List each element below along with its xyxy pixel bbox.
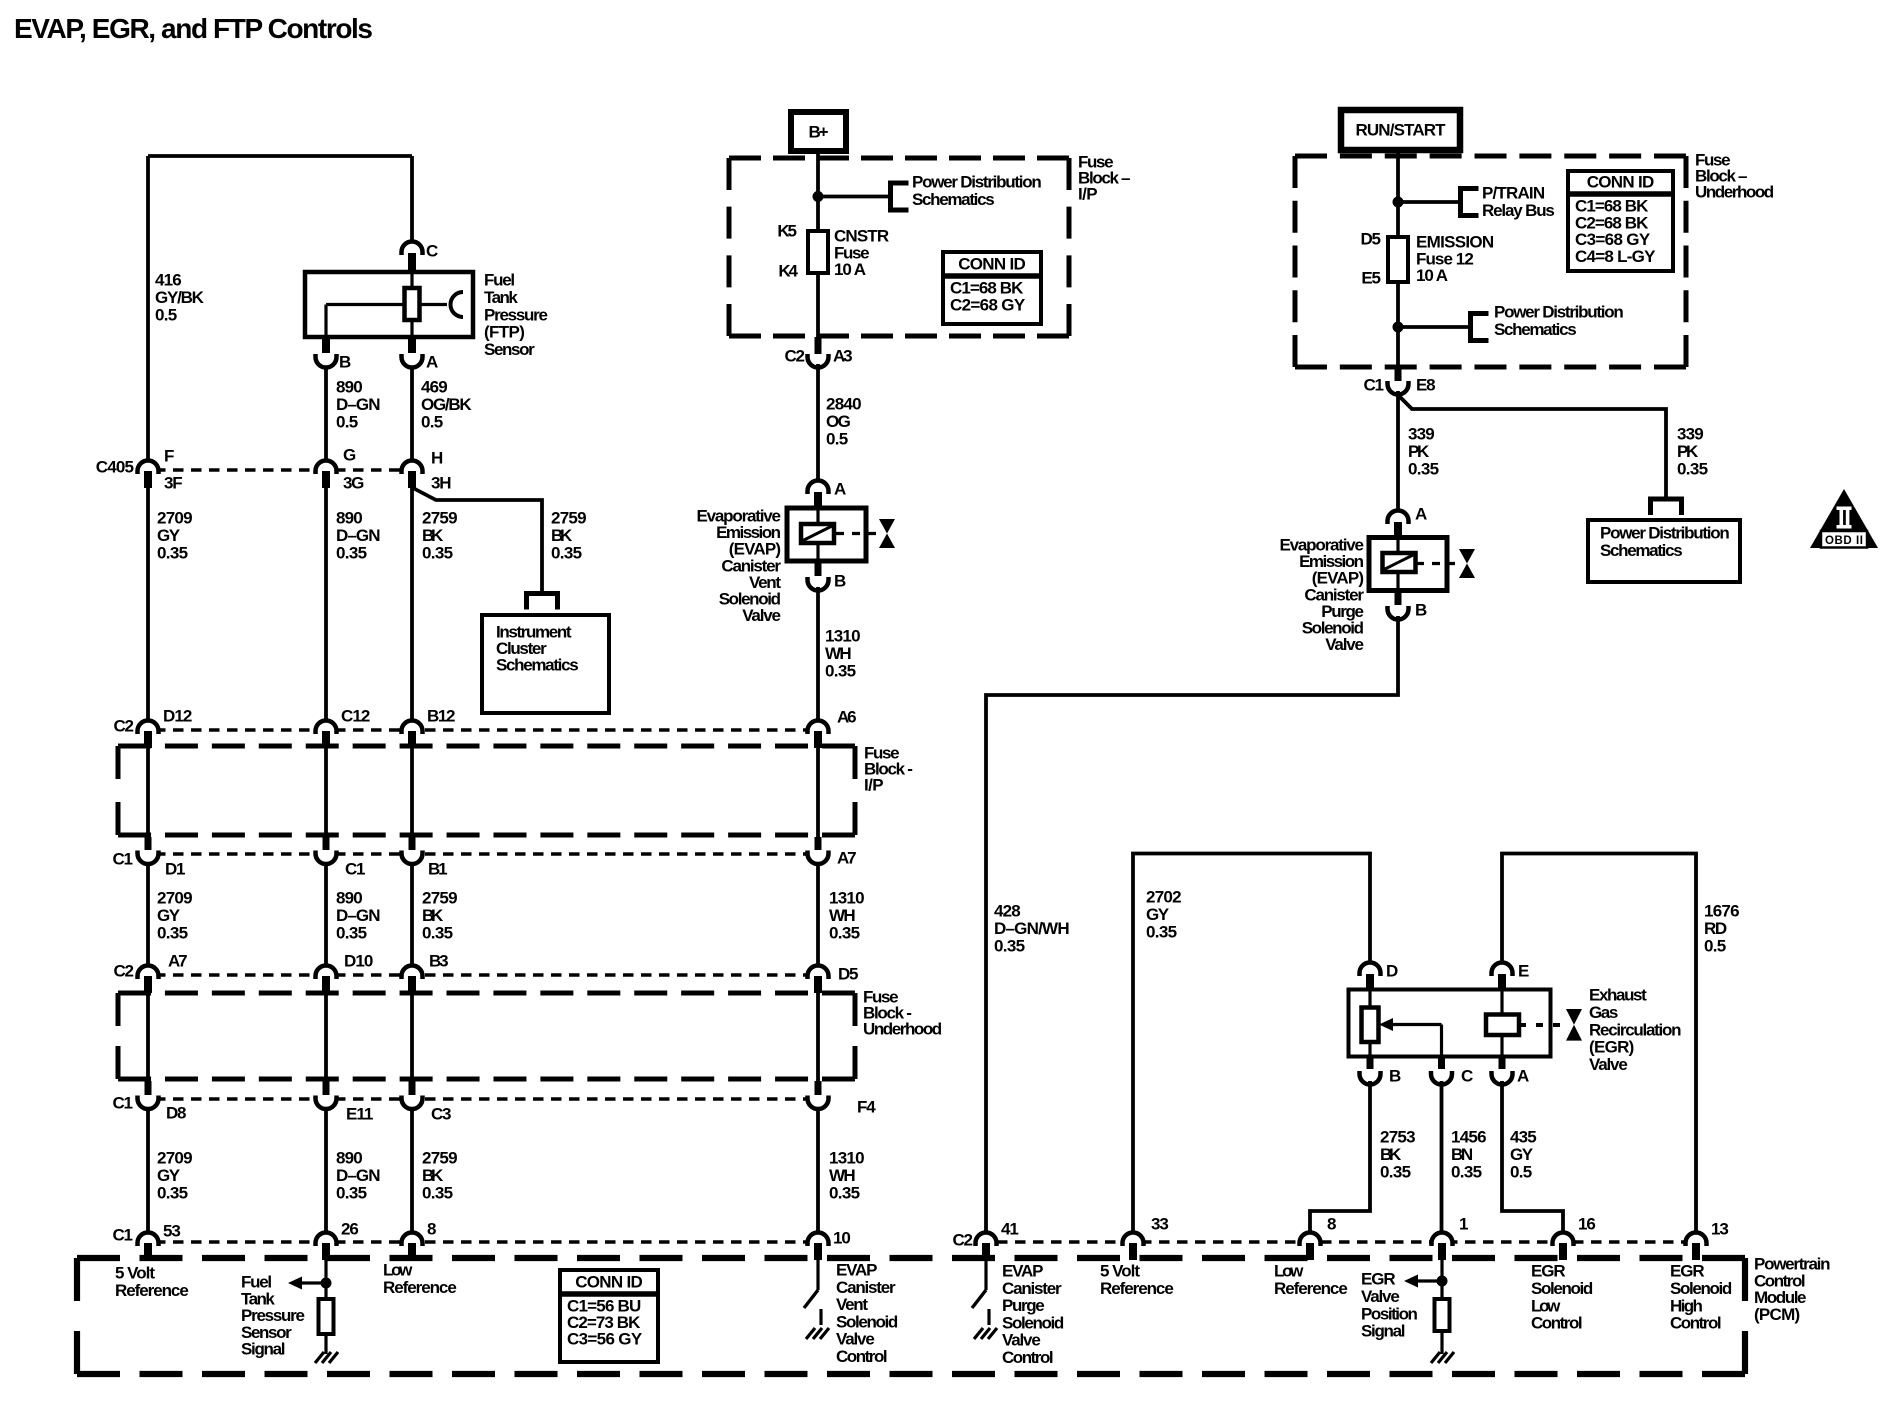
svg-text:1310: 1310 — [829, 889, 865, 908]
svg-text:Exhaust: Exhaust — [1589, 986, 1647, 1005]
powertrain control module PCM box — [77, 1255, 1745, 1261]
svg-text:2709: 2709 — [157, 509, 193, 528]
connector C2 pin D12 — [138, 721, 159, 735]
svg-text:F: F — [164, 447, 174, 466]
EVAP canister vent solenoid valve box — [787, 508, 866, 561]
tap bracket power distribution (I/P) — [891, 183, 909, 210]
EVAP canister purge solenoid valve box — [1369, 538, 1447, 591]
fuel tank pressure FTP sensor box — [305, 272, 473, 337]
svg-text:Purge: Purge — [1002, 1296, 1045, 1315]
svg-text:BK: BK — [422, 1166, 444, 1185]
svg-text:Signal: Signal — [1361, 1322, 1406, 1341]
svg-text:0.5: 0.5 — [826, 429, 848, 448]
svg-text:Valve: Valve — [1002, 1331, 1041, 1350]
svg-text:BK: BK — [422, 526, 444, 545]
svg-text:0.35: 0.35 — [829, 923, 860, 942]
svg-text:890: 890 — [336, 889, 363, 908]
EGR valve dashed link — [1519, 1023, 1560, 1027]
svg-text:F4: F4 — [857, 1098, 876, 1117]
EGR solenoid coil — [1486, 1015, 1519, 1036]
svg-text:1310: 1310 — [829, 1149, 865, 1168]
svg-text:8: 8 — [1327, 1215, 1336, 1234]
svg-text:WH: WH — [825, 644, 852, 663]
svg-text:Canister: Canister — [836, 1278, 896, 1297]
svg-text:2709: 2709 — [157, 1149, 193, 1168]
svg-text:EVAP: EVAP — [1002, 1262, 1044, 1281]
svg-text:B3: B3 — [429, 952, 449, 971]
connector row C2/D12 — [137, 728, 830, 732]
svg-text:Solenoid: Solenoid — [1670, 1279, 1732, 1298]
svg-text:26: 26 — [341, 1220, 359, 1239]
svg-text:Gas: Gas — [1589, 1003, 1618, 1022]
svg-text:Power Distribution: Power Distribution — [1600, 524, 1730, 543]
svg-text:1456: 1456 — [1451, 1128, 1487, 1147]
svg-text:A: A — [1517, 1067, 1529, 1086]
CNSTR fuse 10A — [808, 231, 828, 273]
PCM connector C1 pin 8 — [402, 1233, 423, 1247]
svg-text:D: D — [1386, 962, 1398, 981]
connector A (vent valve) — [808, 481, 829, 495]
svg-text:D8: D8 — [166, 1104, 187, 1123]
pin C (EGR) — [1438, 1056, 1445, 1069]
svg-text:OG/BK: OG/BK — [421, 395, 472, 414]
svg-text:0.5: 0.5 — [421, 412, 443, 431]
svg-text:0.35: 0.35 — [422, 923, 453, 942]
vent valve dashed link — [836, 532, 876, 535]
svg-text:High: High — [1670, 1296, 1703, 1315]
wire 2753 BK — [1310, 1081, 1370, 1231]
svg-text:0.35: 0.35 — [825, 661, 856, 680]
wire 2759 BK / 469 OG-BK (x=412) — [410, 156, 414, 240]
svg-text:41: 41 — [1001, 1220, 1019, 1239]
svg-text:Solenoid: Solenoid — [836, 1312, 898, 1331]
svg-text:0.35: 0.35 — [1380, 1162, 1411, 1181]
svg-text:A6: A6 — [837, 708, 857, 727]
connector C2 pin A6 — [808, 721, 829, 735]
ground (vent driver) — [819, 1309, 822, 1325]
svg-text:1676: 1676 — [1704, 902, 1740, 921]
svg-text:Solenoid: Solenoid — [1002, 1313, 1064, 1332]
svg-text:Valve: Valve — [1361, 1287, 1400, 1306]
connector C1 pin D8 — [145, 1081, 152, 1095]
svg-text:Solenoid: Solenoid — [1531, 1279, 1593, 1298]
tap bracket to power distribution schematics box — [1651, 499, 1682, 515]
connector C1 pin C3 — [409, 1081, 416, 1095]
svg-text:Reference: Reference — [1100, 1279, 1174, 1298]
svg-text:3H: 3H — [431, 474, 452, 493]
power distribution schematics box — [1588, 520, 1740, 582]
svg-text:0.5: 0.5 — [336, 412, 358, 431]
svg-text:890: 890 — [336, 1149, 363, 1168]
svg-text:Vent: Vent — [836, 1295, 868, 1314]
svg-text:C1: C1 — [113, 1094, 134, 1113]
connector C2 A3 — [815, 337, 822, 354]
svg-text:Power Distribution: Power Distribution — [1494, 303, 1624, 322]
connector C (FTP sensor) — [402, 242, 423, 256]
wire to P/TRAIN relay bus tap — [1398, 200, 1460, 204]
svg-text:0.35: 0.35 — [994, 936, 1025, 955]
tap bracket to instrument cluster — [527, 594, 558, 610]
connector E (EGR valve) — [1492, 963, 1513, 976]
PCM connector C1 pin 26 — [316, 1233, 337, 1247]
svg-text:G: G — [343, 446, 356, 465]
svg-text:13: 13 — [1711, 1220, 1729, 1239]
svg-text:CONN ID: CONN ID — [575, 1273, 643, 1292]
svg-text:0.35: 0.35 — [157, 1183, 188, 1202]
svg-text:C3: C3 — [431, 1105, 452, 1124]
svg-text:2709: 2709 — [157, 889, 193, 908]
wire 2709 GY (x=148) — [146, 156, 150, 459]
svg-text:C2: C2 — [114, 962, 135, 981]
svg-text:RD: RD — [1704, 919, 1727, 938]
svg-text:0.35: 0.35 — [1451, 1162, 1482, 1181]
svg-text:0.5: 0.5 — [1704, 936, 1726, 955]
connector D (EGR valve) — [1360, 963, 1381, 976]
EMISSION fuse 12 10A — [1388, 237, 1408, 282]
svg-text:0.35: 0.35 — [1146, 922, 1177, 941]
svg-text:C4=8 L-GY: C4=8 L-GY — [1575, 247, 1656, 266]
wire 339 PK left branch — [1396, 391, 1400, 509]
svg-text:10: 10 — [833, 1229, 851, 1248]
svg-text:339: 339 — [1408, 425, 1435, 444]
pin B (vent valve) — [815, 561, 822, 576]
svg-text:PK: PK — [1408, 442, 1430, 461]
pin A (FTP) — [408, 338, 416, 353]
svg-text:416: 416 — [155, 271, 182, 290]
fuse block I/P (middle) — [118, 744, 855, 749]
svg-text:B: B — [1415, 601, 1427, 620]
wire 2759 BK branch to instrument cluster — [413, 488, 542, 592]
FTP pressure crescent — [451, 292, 464, 317]
svg-text:469: 469 — [421, 378, 448, 397]
svg-text:Valve: Valve — [836, 1330, 875, 1349]
wire 890 D-GN (x=326) — [324, 368, 328, 459]
wire 435 GY — [1502, 1081, 1563, 1231]
wire to power distribution tap (underhood) — [1398, 325, 1470, 329]
svg-text:339: 339 — [1677, 425, 1704, 444]
svg-text:0.35: 0.35 — [551, 543, 582, 562]
svg-text:Canister: Canister — [1002, 1279, 1062, 1298]
svg-text:435: 435 — [1510, 1128, 1537, 1147]
CONN ID table (fuse block I/P) — [943, 252, 1041, 324]
svg-text:D–GN: D–GN — [336, 395, 381, 414]
PCM connector C2 pin 41 — [976, 1233, 997, 1247]
svg-text:Control: Control — [1002, 1348, 1054, 1367]
EGR valve position signal input (pin 1) — [1440, 1260, 1443, 1354]
svg-text:B: B — [834, 572, 846, 591]
svg-text:D–GN: D–GN — [336, 526, 381, 545]
svg-text:0.35: 0.35 — [1677, 459, 1708, 478]
wire 1310 WH — [816, 587, 820, 719]
svg-text:A7: A7 — [837, 849, 857, 868]
svg-text:D–GN: D–GN — [336, 906, 381, 925]
svg-text:Power Distribution: Power Distribution — [912, 173, 1042, 192]
connector C1 pin F4 — [815, 1081, 822, 1095]
svg-text:(FTP): (FTP) — [484, 323, 525, 342]
svg-text:Low: Low — [1531, 1296, 1561, 1315]
svg-text:Valve: Valve — [1325, 635, 1364, 654]
svg-text:1310: 1310 — [825, 627, 861, 646]
svg-text:GY: GY — [1510, 1145, 1534, 1164]
connector C405 pin G — [316, 461, 337, 475]
svg-text:D10: D10 — [344, 952, 373, 971]
svg-text:2759: 2759 — [422, 1149, 458, 1168]
svg-text:RUN/START: RUN/START — [1355, 121, 1446, 140]
svg-text:BK: BK — [1380, 1145, 1402, 1164]
svg-text:C2: C2 — [953, 1231, 974, 1250]
wire to power distribution tap — [818, 195, 890, 199]
pin B (purge valve) — [1395, 590, 1402, 605]
svg-text:53: 53 — [163, 1222, 181, 1241]
svg-text:Control: Control — [1670, 1314, 1722, 1333]
svg-text:(EGR): (EGR) — [1589, 1038, 1634, 1057]
svg-text:C12: C12 — [341, 707, 370, 726]
svg-text:D1: D1 — [165, 860, 186, 879]
svg-text:Valve: Valve — [742, 606, 781, 625]
svg-text:C1: C1 — [1364, 376, 1385, 395]
connector C405 pin F — [138, 461, 159, 475]
svg-text:Fuel: Fuel — [484, 271, 515, 290]
svg-text:Reference: Reference — [1274, 1279, 1348, 1298]
purge valve dashed link — [1416, 562, 1455, 565]
svg-text:0.5: 0.5 — [1510, 1162, 1532, 1181]
svg-text:Relay Bus: Relay Bus — [1482, 201, 1555, 220]
svg-text:2759: 2759 — [422, 889, 458, 908]
pin A (EGR) — [1499, 1056, 1506, 1069]
svg-text:A7: A7 — [168, 952, 188, 971]
svg-text:D5: D5 — [1361, 230, 1382, 249]
purge valve solenoid coil — [1383, 553, 1416, 572]
RUN/START box — [1341, 110, 1460, 150]
vent valve solenoid coil — [801, 524, 834, 543]
svg-text:Reference: Reference — [383, 1278, 457, 1297]
svg-text:(PCM): (PCM) — [1754, 1305, 1800, 1324]
svg-text:GY: GY — [157, 906, 181, 925]
connector C1 pin C1 — [323, 837, 330, 850]
EGR wiper arrow — [1390, 1023, 1442, 1026]
svg-text:Underhood: Underhood — [1695, 183, 1774, 202]
svg-text:Low: Low — [1274, 1262, 1304, 1281]
tap bracket power distribution (underhood) — [1471, 314, 1489, 341]
svg-text:EGR: EGR — [1531, 1262, 1566, 1281]
PCM connector C2 pin 1 — [1432, 1233, 1453, 1247]
wire 1676 RD (EGR E to pin 13) — [1502, 854, 1696, 1232]
junction node (P/TRAIN tap) — [1393, 197, 1404, 208]
svg-text:0.35: 0.35 — [422, 1183, 453, 1202]
svg-text:Underhood: Underhood — [863, 1020, 942, 1039]
svg-text:890: 890 — [336, 509, 363, 528]
svg-text:16: 16 — [1578, 1215, 1596, 1234]
FTP potentiometer wiper wire — [326, 303, 447, 306]
junction node (power distribution tap) — [1393, 322, 1404, 333]
svg-text:0.35: 0.35 — [336, 543, 367, 562]
svg-text:A: A — [426, 353, 438, 372]
svg-text:890: 890 — [336, 378, 363, 397]
svg-text:E5: E5 — [1361, 269, 1381, 288]
PCM connector C2 pin 13 — [1686, 1233, 1707, 1247]
connector C2 pin D10 — [316, 966, 337, 979]
svg-text:EVAP: EVAP — [836, 1261, 878, 1280]
svg-text:C2: C2 — [114, 717, 135, 736]
pin B (EGR) — [1367, 1056, 1374, 1069]
connector C2 pin B3 — [402, 966, 423, 979]
svg-text:A3: A3 — [833, 347, 853, 366]
svg-text:I/P: I/P — [1078, 185, 1098, 204]
svg-text:Pressure: Pressure — [484, 305, 548, 324]
FTP sensor signal input (pin 26) — [324, 1260, 327, 1354]
svg-text:H: H — [431, 449, 443, 468]
svg-text:10 A: 10 A — [834, 260, 866, 279]
svg-text:Valve: Valve — [1589, 1055, 1628, 1074]
svg-text:0.35: 0.35 — [336, 1183, 367, 1202]
ground (FTP signal pulldown) — [315, 1352, 338, 1363]
svg-text:Recirculation: Recirculation — [1589, 1020, 1682, 1039]
PCM connector C1 pin 10 — [808, 1233, 829, 1247]
svg-text:Position: Position — [1361, 1304, 1418, 1323]
connector C2 pin B12 — [402, 721, 423, 735]
svg-text:B: B — [339, 353, 351, 372]
svg-text:GY: GY — [157, 526, 181, 545]
connector C1 pin E11 — [323, 1081, 330, 1095]
PCM connector C2 pin 8 — [1300, 1233, 1321, 1247]
svg-text:EGR: EGR — [1361, 1270, 1396, 1289]
ground (EGR position pulldown) — [1431, 1352, 1454, 1363]
svg-text:WH: WH — [829, 906, 856, 925]
svg-text:C1: C1 — [113, 1226, 134, 1245]
svg-text:Schematics: Schematics — [1600, 541, 1683, 560]
svg-text:Schematics: Schematics — [1494, 320, 1577, 339]
svg-text:BN: BN — [1451, 1145, 1473, 1164]
svg-text:B1: B1 — [428, 860, 448, 879]
svg-text:0.5: 0.5 — [155, 305, 177, 324]
svg-text:CONN ID: CONN ID — [1587, 173, 1655, 192]
svg-text:Low: Low — [383, 1261, 413, 1280]
svg-text:GY: GY — [1146, 905, 1170, 924]
svg-text:E8: E8 — [1416, 376, 1436, 395]
svg-text:C1: C1 — [345, 860, 366, 879]
svg-text:D–GN: D–GN — [336, 1166, 381, 1185]
vent solenoid driver switch (pin 10) — [816, 1260, 819, 1290]
connector A (purge valve) — [1388, 511, 1409, 525]
svg-text:GY/BK: GY/BK — [155, 288, 205, 307]
svg-text:A: A — [834, 480, 846, 499]
svg-text:PK: PK — [1677, 442, 1699, 461]
PCM connector row C2 — [997, 1240, 1701, 1244]
svg-text:C: C — [1461, 1067, 1473, 1086]
wire 2840 OG — [816, 364, 820, 479]
svg-text:8: 8 — [427, 1220, 436, 1239]
connector C2 pin C12 — [316, 721, 337, 735]
svg-text:Control: Control — [1531, 1314, 1583, 1333]
connector C2 pin D5 — [808, 966, 829, 979]
ground (purge driver) — [987, 1309, 990, 1325]
FTP resistor element — [405, 288, 420, 320]
svg-text:428: 428 — [994, 902, 1021, 921]
svg-text:0.35: 0.35 — [829, 1183, 860, 1202]
svg-text:C2=68 GY: C2=68 GY — [950, 296, 1026, 315]
svg-text:BK: BK — [551, 526, 573, 545]
svg-text:Control: Control — [836, 1347, 888, 1366]
svg-text:0.35: 0.35 — [157, 923, 188, 942]
svg-text:I/P: I/P — [864, 776, 884, 795]
connector C1 pin A7 — [815, 837, 822, 850]
tap bracket P/TRAIN relay bus — [1461, 189, 1479, 216]
wire B+ to CNSTR fuse — [816, 151, 820, 231]
connector row C405 — [137, 468, 424, 472]
junction node (B+ feed) — [813, 191, 824, 202]
wire 2702 GY (5 volt ref to EGR D) — [1133, 854, 1370, 1232]
pin B (FTP) — [322, 338, 330, 353]
wire CNSTR fuse to connector A3 — [816, 273, 820, 340]
svg-text:2753: 2753 — [1380, 1128, 1416, 1147]
svg-text:0.35: 0.35 — [422, 543, 453, 562]
svg-text:1: 1 — [1459, 1215, 1468, 1234]
svg-text:WH: WH — [829, 1166, 856, 1185]
svg-text:2759: 2759 — [551, 509, 587, 528]
svg-text:K4: K4 — [778, 262, 798, 281]
svg-text:A: A — [1415, 505, 1427, 524]
svg-text:P/TRAIN: P/TRAIN — [1482, 184, 1545, 203]
svg-text:B+: B+ — [809, 123, 829, 142]
connector C1 pin D1 — [145, 837, 152, 850]
wire RUN/START to EMISSION fuse — [1396, 150, 1400, 237]
EGR position sensor element — [1362, 1008, 1379, 1043]
svg-text:3F: 3F — [164, 474, 183, 493]
svg-text:Reference: Reference — [115, 1281, 189, 1300]
svg-text:33: 33 — [1151, 1215, 1169, 1234]
svg-text:D5: D5 — [838, 965, 859, 984]
svg-text:E11: E11 — [346, 1105, 373, 1124]
svg-text:CONN ID: CONN ID — [958, 255, 1026, 274]
fuse block Underhood (middle) — [118, 991, 855, 996]
svg-text:2840: 2840 — [826, 395, 862, 414]
svg-text:BK: BK — [422, 906, 444, 925]
svg-text:C3=56 GY: C3=56 GY — [567, 1330, 643, 1349]
svg-text:2702: 2702 — [1146, 888, 1182, 907]
connector C1 pin B1 — [409, 837, 416, 850]
svg-text:Schematics: Schematics — [912, 190, 995, 209]
svg-text:Signal: Signal — [241, 1340, 286, 1359]
svg-text:B12: B12 — [427, 707, 456, 726]
wire 339 PK right branch — [1399, 396, 1666, 497]
svg-text:Schematics: Schematics — [496, 656, 579, 675]
CONN ID table (fuse block underhood) — [1568, 171, 1673, 271]
svg-text:OG: OG — [826, 412, 851, 431]
connector C405 pin H — [402, 461, 423, 475]
connector row C1/D8 — [137, 1097, 830, 1101]
svg-text:C1: C1 — [113, 850, 134, 869]
svg-text:0.35: 0.35 — [336, 923, 367, 942]
svg-text:EGR: EGR — [1670, 1262, 1705, 1281]
PCM connector C1 pin 53 — [138, 1233, 159, 1247]
svg-text:EVAP, EGR, and FTP Controls: EVAP, EGR, and FTP Controls — [14, 13, 373, 44]
svg-text:GY: GY — [157, 1166, 181, 1185]
svg-text:5 Volt: 5 Volt — [115, 1264, 155, 1283]
wire 416 GY/BK top horizontal — [148, 154, 412, 158]
wire 428 D-GN/WH — [986, 616, 1398, 1231]
CONN ID table (PCM) — [560, 1270, 658, 1362]
EGR valve seat symbol — [1566, 1009, 1582, 1041]
svg-text:2759: 2759 — [422, 509, 458, 528]
purge valve seat symbol — [1459, 549, 1475, 578]
PCM connector C2 pin 33 — [1123, 1233, 1144, 1247]
svg-text:C2: C2 — [785, 347, 806, 366]
PCM connector row C1 — [137, 1240, 830, 1244]
connector C1 E8 — [1395, 367, 1402, 381]
connector row C1/D1 — [137, 852, 830, 856]
svg-text:10 A: 10 A — [1416, 266, 1448, 285]
PCM connector C2 pin 16 — [1553, 1233, 1574, 1247]
